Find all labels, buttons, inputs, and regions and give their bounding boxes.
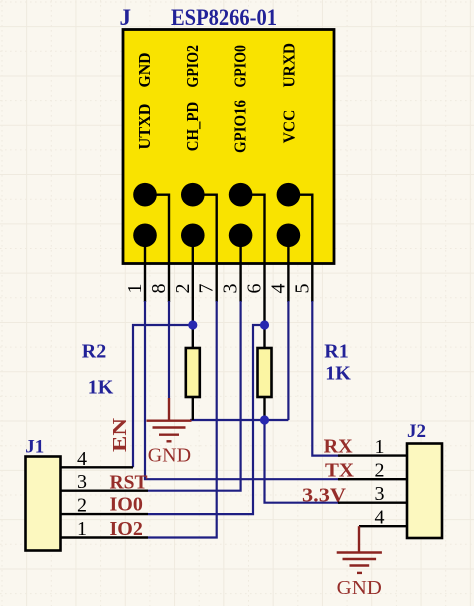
lead R1 bottom (263, 397, 265, 420)
svg-text:3: 3 (375, 483, 385, 505)
junction dot 3.3V rail (260, 415, 269, 424)
gnd bar 2 (343, 558, 377, 560)
svg-text:J: J (120, 5, 132, 30)
connector J1 (25, 437, 148, 551)
svg-text:2: 2 (172, 284, 194, 294)
svg-text:ESP8266-01: ESP8266-01 (171, 5, 277, 30)
pin lead 2 (192, 235, 194, 325)
gnd bar 4 (167, 440, 172, 442)
ground symbol lower GND (337, 526, 382, 573)
gnd bar 4 (357, 572, 362, 574)
lead R1 top (263, 325, 265, 348)
svg-text:GPIO0: GPIO0 (231, 45, 250, 88)
resistor R1 (258, 325, 352, 420)
junction dot GPIO0/IO0 (260, 320, 269, 329)
gnd bar 3 (159, 434, 179, 436)
svg-text:3: 3 (77, 471, 87, 493)
gnd bar 1 (337, 551, 382, 553)
svg-text:GND: GND (135, 53, 154, 88)
pin lead J1-4 (61, 466, 134, 468)
svg-text:GND: GND (337, 577, 382, 599)
svg-text:1: 1 (124, 284, 146, 294)
pad pin8 GND (133, 183, 157, 207)
wire VCC pin4 down to 3.3V rail (287, 301, 289, 420)
pad pin6 GPIO0 (229, 183, 253, 207)
svg-text:6: 6 (244, 284, 266, 294)
svg-text:CH_PD: CH_PD (183, 102, 202, 152)
wire TX: pin1 down then right to J2 pin2 (145, 301, 340, 479)
ESP8266-01 module U "J" (120, 5, 335, 325)
svg-text:UTXD: UTXD (135, 104, 154, 150)
wire IO2: pin7 down then left to J1 pin1 (148, 301, 217, 538)
wire IO0: junction left and down to J1 pin2 (148, 325, 265, 514)
svg-text:1: 1 (375, 436, 385, 458)
svg-text:R1: R1 (324, 340, 348, 362)
pad pin1 UTXD (133, 224, 157, 248)
pin lead J2-3 (338, 502, 407, 504)
svg-text:2: 2 (375, 460, 385, 482)
svg-text:1K: 1K (88, 377, 114, 399)
svg-text:EN: EN (109, 417, 131, 452)
pin lead 6 (241, 195, 265, 325)
body J1 (26, 457, 61, 551)
svg-text:GPIO16: GPIO16 (231, 100, 250, 153)
svg-text:RX: RX (324, 435, 354, 457)
lead R2 top (192, 325, 194, 348)
pin lead J2-4 (359, 525, 407, 527)
svg-text:GPIO2: GPIO2 (183, 45, 202, 88)
svg-text:5: 5 (291, 284, 313, 294)
pin lead J2-1 (338, 454, 407, 456)
svg-text:J1: J1 (25, 437, 44, 458)
pin lead J2-2 (338, 478, 407, 480)
gnd bar 1 (147, 420, 192, 422)
gnd bar 2 (153, 426, 186, 428)
gnd stem (168, 398, 170, 421)
wire 3.3V rail (190, 419, 288, 421)
junction dot CH_PD/EN (188, 320, 197, 329)
pad pin2 CH_PD (181, 224, 205, 248)
lead R2 bottom (192, 397, 194, 420)
svg-text:URXD: URXD (279, 43, 298, 88)
wire GND net from pin8 (168, 301, 170, 399)
svg-text:4: 4 (375, 507, 385, 529)
wire 3.3V down to J2 pin3 (265, 420, 341, 503)
svg-text:8: 8 (148, 284, 170, 294)
pin lead 5 (288, 195, 312, 302)
wire EN: junction left and down to J1 pin4 (133, 325, 193, 467)
svg-text:7: 7 (196, 284, 218, 294)
ground symbol upper GND (147, 398, 192, 441)
body R1 (258, 348, 272, 397)
wire RST: pin3 down then left to J1 pin3 (148, 301, 241, 491)
pad pin3 GPIO16 (229, 224, 253, 248)
pin lead 1 (144, 235, 146, 302)
wire RX: pin5 down then right to J2 pin1 (312, 301, 340, 456)
body R2 (186, 348, 200, 397)
gnd bar 3 (350, 564, 370, 566)
pin lead J1-2 (61, 513, 149, 515)
resistor R2 (82, 325, 200, 420)
svg-text:2: 2 (77, 495, 87, 517)
connector J2 (338, 421, 442, 538)
pin lead 7 (193, 195, 217, 302)
gnd stem (358, 526, 360, 552)
svg-text:3: 3 (220, 284, 242, 294)
svg-text:1K: 1K (325, 363, 351, 385)
svg-text:R2: R2 (82, 340, 106, 362)
svg-text:4: 4 (77, 448, 87, 470)
svg-text:IO0: IO0 (110, 494, 143, 516)
svg-text:4: 4 (267, 284, 289, 294)
pad pin5 URXD (277, 183, 301, 207)
pad pin7 GPIO2 (181, 183, 205, 207)
pin lead 4 (287, 235, 289, 302)
svg-text:GND: GND (148, 445, 191, 467)
body of module J (123, 30, 334, 264)
svg-text:J2: J2 (407, 421, 426, 442)
pin lead J1-3 (61, 490, 149, 492)
pad pin4 VCC (277, 224, 301, 248)
body J2 (407, 444, 442, 539)
svg-text:VCC: VCC (279, 110, 298, 144)
svg-text:1: 1 (77, 518, 87, 540)
pin lead 3 (239, 235, 241, 302)
pin lead 8 (145, 195, 169, 302)
pin lead J1-1 (61, 536, 149, 538)
